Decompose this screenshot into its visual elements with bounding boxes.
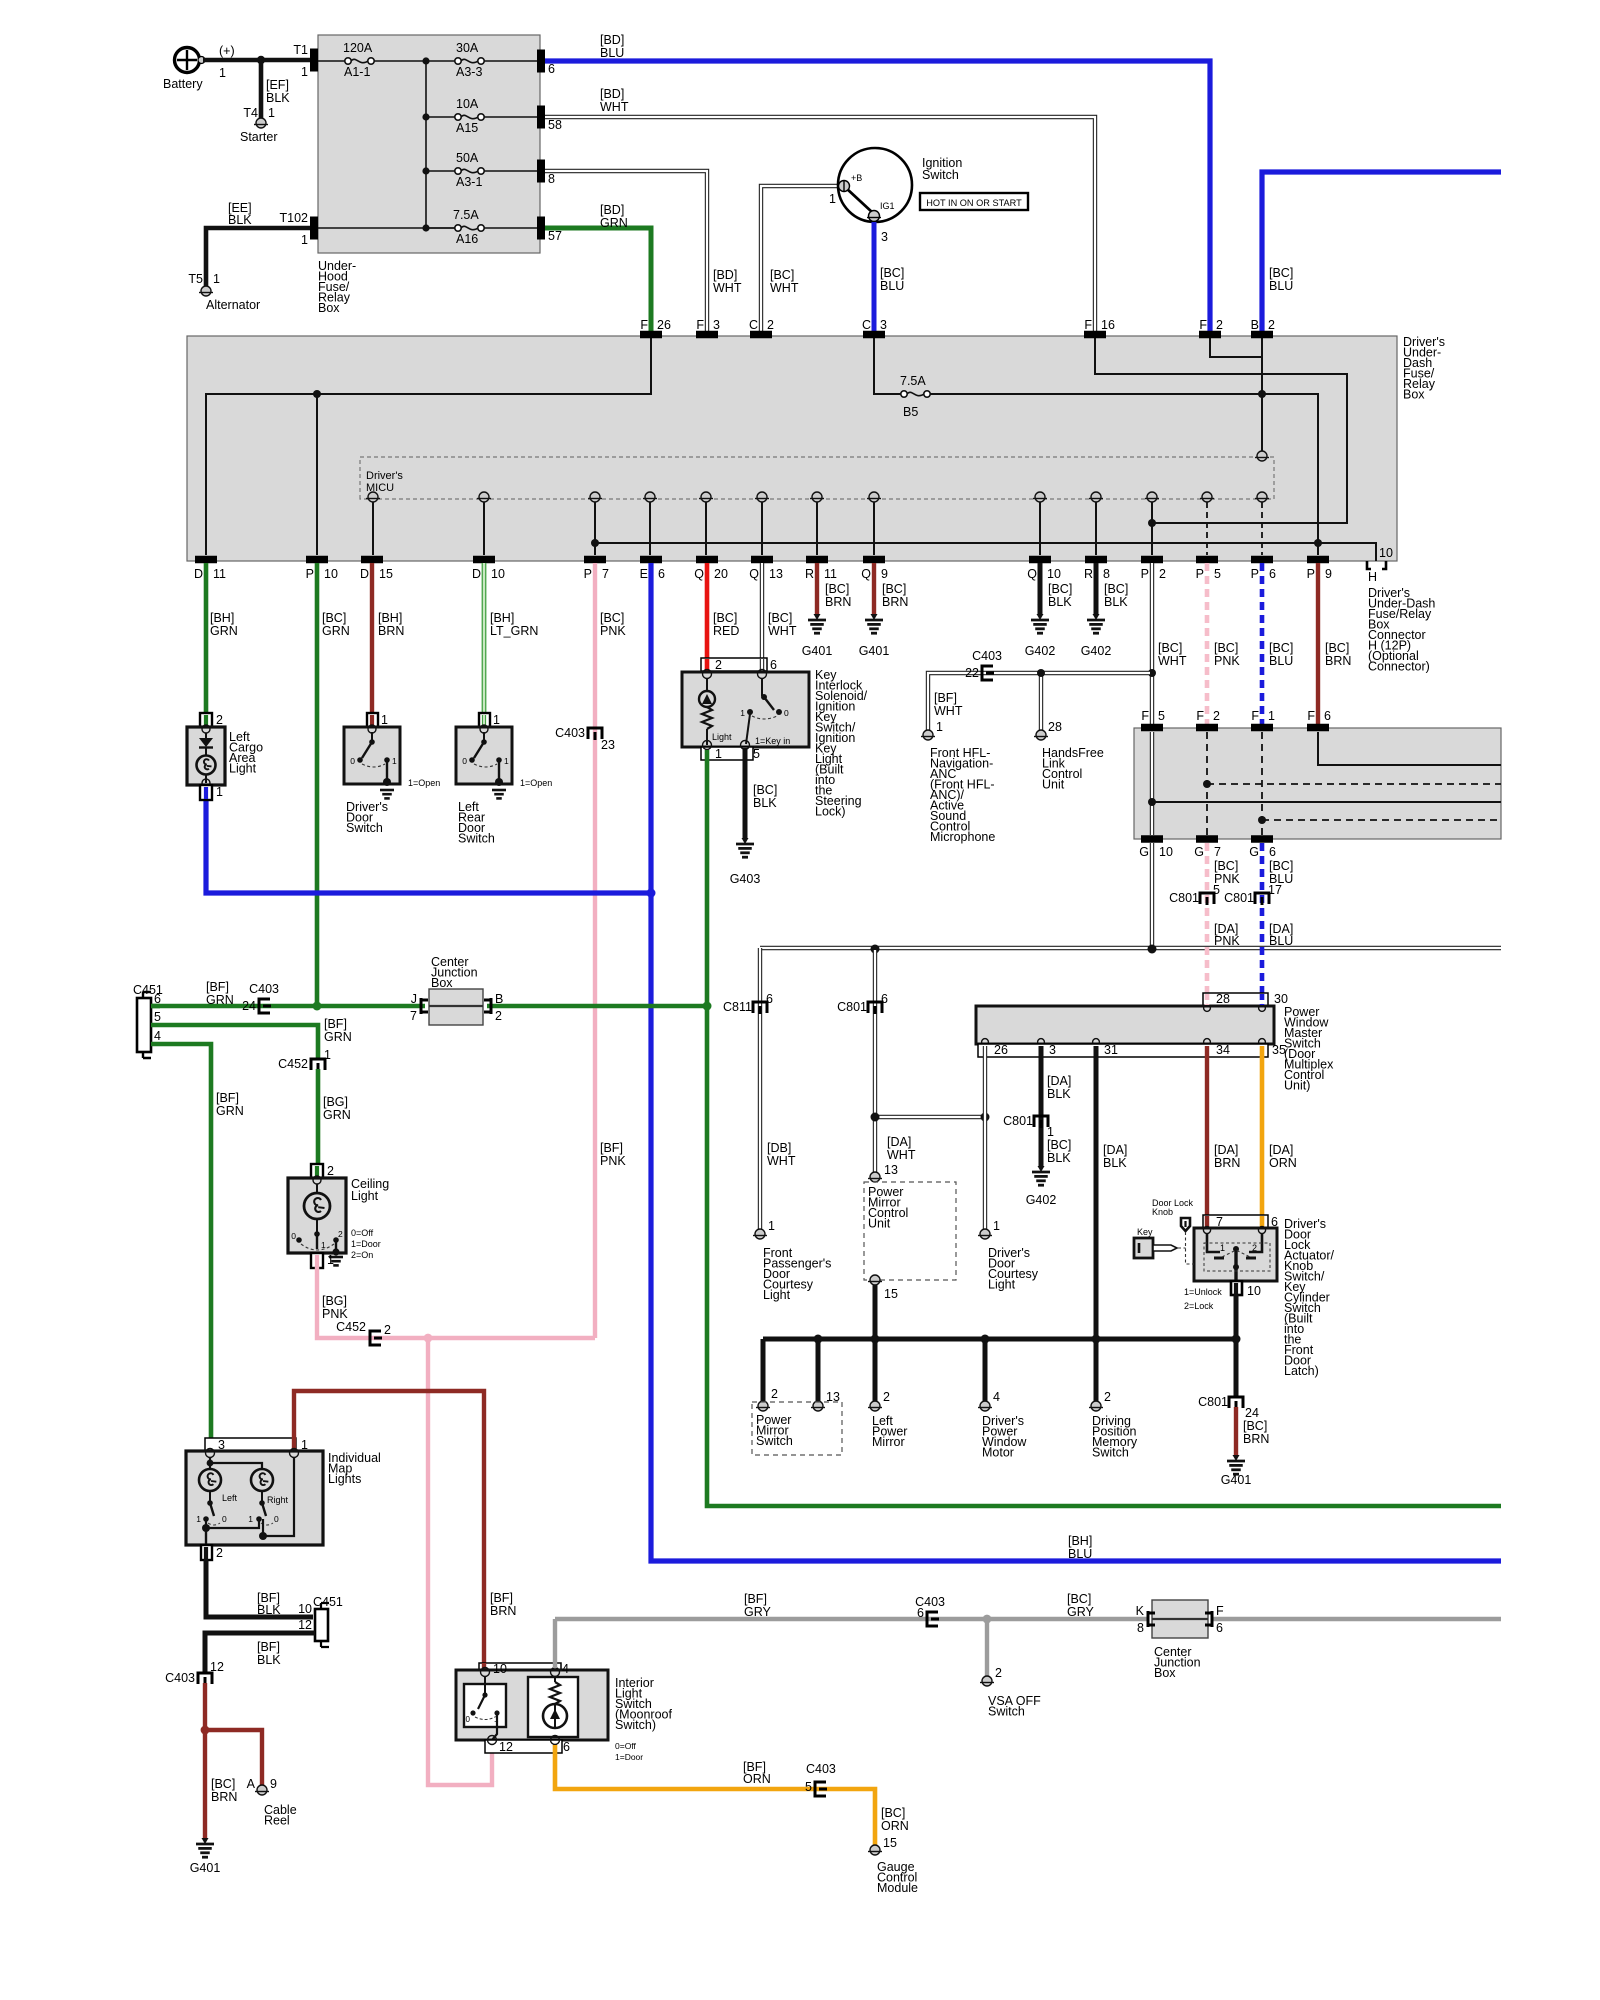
svg-text:0: 0: [784, 708, 789, 718]
svg-text:Latch): Latch): [1284, 1364, 1319, 1378]
svg-text:0: 0: [350, 756, 355, 766]
MICU pin x=484: [479, 492, 489, 502]
key icon: [1134, 1238, 1153, 1258]
svg-text:[BC]: [BC]: [1325, 641, 1349, 655]
svg-text:12: 12: [298, 1618, 312, 1632]
svg-text:D: D: [360, 567, 369, 581]
svg-text:6: 6: [1269, 567, 1276, 581]
internal feed lines under-hood box: [318, 60, 345, 62]
wire [BD] BLU fuse6 to F2: [545, 61, 1210, 333]
wire [BF] BLK C451-12 to C403-12: [205, 1633, 315, 1673]
svg-text:13: 13: [769, 567, 783, 581]
output pin 57: [537, 217, 545, 240]
fuse 7.5A B5: [901, 391, 907, 397]
HFL box internal F1 dashed: [1261, 732, 1263, 835]
svg-text:1: 1: [740, 708, 745, 718]
Power Mirror Switch dashed box: [752, 1402, 842, 1455]
svg-text:LT_GRN: LT_GRN: [490, 624, 538, 638]
svg-text:1: 1: [219, 66, 226, 80]
svg-text:J: J: [411, 992, 417, 1006]
DLA pin 10: [1231, 1281, 1242, 1295]
svg-text:15: 15: [379, 567, 393, 581]
wire PMCU-15 to bus: [873, 1285, 878, 1339]
power mirror switch terminal 13: [813, 1401, 823, 1411]
ceiling light pin 1: [311, 1253, 323, 1268]
svg-text:[BC]: [BC]: [770, 268, 794, 282]
connector R8: [1085, 556, 1107, 564]
connector F5: [1141, 724, 1163, 732]
svg-text:HOT IN ON OR START: HOT IN ON OR START: [926, 198, 1022, 208]
svg-text:[BC]: [BC]: [881, 1806, 905, 1820]
connector C3: [863, 331, 885, 339]
svg-text:6: 6: [881, 992, 888, 1006]
svg-text:B: B: [1251, 318, 1259, 332]
svg-text:P: P: [1196, 567, 1204, 581]
connector C2: [750, 331, 772, 339]
svg-text:G401: G401: [190, 1861, 221, 1875]
wire [BF] GRN C451-4 to map lights: [151, 1044, 211, 1449]
svg-text:0: 0: [291, 1231, 296, 1241]
svg-text:26: 26: [994, 1043, 1008, 1057]
svg-text:2: 2: [767, 318, 774, 332]
wire [BC] PNK P5 to F2 dashed: [1205, 563, 1210, 724]
Interior Light Switch box: [456, 1670, 608, 1740]
svg-text:BLK: BLK: [1047, 1151, 1071, 1165]
connector C811 6: [753, 1002, 767, 1013]
svg-text:F: F: [1141, 709, 1149, 723]
key-in switch: [761, 678, 763, 696]
svg-text:12: 12: [499, 1740, 513, 1754]
svg-text:30: 30: [1274, 992, 1288, 1006]
svg-text:28: 28: [1048, 720, 1062, 734]
svg-text:[BF]: [BF]: [490, 1591, 513, 1605]
svg-text:G403: G403: [730, 872, 761, 886]
svg-text:BLU: BLU: [1269, 654, 1293, 668]
connector C801 5: [1200, 893, 1214, 904]
svg-text:11: 11: [213, 567, 226, 581]
svg-text:Light: Light: [763, 1288, 791, 1302]
svg-text:Light: Light: [712, 732, 732, 742]
svg-text:2: 2: [495, 1009, 502, 1023]
svg-text:[BF]: [BF]: [934, 691, 957, 705]
connector C403 5: [815, 1782, 826, 1796]
HFL box internal F6: [1318, 732, 1501, 765]
svg-text:ORN: ORN: [743, 1772, 771, 1786]
wire [BC] PNK P7 down: [593, 563, 597, 1338]
svg-text:2: 2: [216, 1546, 223, 1560]
wire battery to T1: [203, 58, 311, 63]
DLA connector shell: [1203, 1215, 1268, 1228]
connector F2: [1196, 724, 1218, 732]
wire [DA] BLU G6 to PWMS 30 dashed: [1260, 843, 1265, 1006]
svg-text:WHT: WHT: [600, 100, 629, 114]
alternator terminal T5: [201, 286, 211, 296]
svg-text:7.5A: 7.5A: [900, 374, 926, 388]
svg-text:+B: +B: [851, 173, 862, 183]
IML connector shell: [205, 1438, 296, 1451]
key interlock connector shell bottom: [701, 747, 753, 760]
connector G7: [1196, 835, 1218, 843]
connector C451 pins 6/5/4: [137, 998, 151, 1052]
svg-text:7: 7: [410, 1009, 417, 1023]
connector F6: [1307, 724, 1329, 732]
svg-text:GRN: GRN: [324, 1030, 352, 1044]
svg-text:6: 6: [563, 1740, 570, 1754]
svg-text:[DA]: [DA]: [1047, 1074, 1071, 1088]
connector C452 2: [370, 1331, 381, 1345]
svg-text:24: 24: [1245, 1406, 1259, 1420]
svg-text:GRN: GRN: [210, 624, 238, 638]
switch contact to ground: [386, 760, 388, 782]
Under-Hood Fuse/Relay Box: [318, 35, 540, 253]
wire [BC] BRN P9 to F6: [1316, 563, 1320, 724]
wire [BF] ORN ILS-6 to gauge control module: [555, 1745, 875, 1845]
svg-text:F: F: [1307, 709, 1315, 723]
svg-text:[BG]: [BG]: [323, 1095, 348, 1109]
svg-text:PNK: PNK: [322, 1307, 348, 1321]
MICU pin x=650: [645, 492, 655, 502]
svg-text:R: R: [805, 567, 814, 581]
svg-text:57: 57: [548, 229, 562, 243]
svg-text:10: 10: [1159, 845, 1173, 859]
svg-text:BLK: BLK: [266, 91, 290, 105]
IML internal wiring: [209, 1457, 211, 1462]
svg-text:[BF]: [BF]: [206, 980, 229, 994]
svg-text:23: 23: [601, 738, 615, 752]
svg-text:[BF]: [BF]: [600, 1141, 623, 1155]
wire WHT C801 branch: [873, 950, 877, 1117]
door switch pin 1: [479, 713, 490, 728]
terminal T102: [310, 217, 318, 240]
MICU pin x=706: [701, 492, 711, 502]
svg-text:BLK: BLK: [753, 796, 777, 810]
ground G401: [871, 614, 878, 620]
connector P2: [1141, 556, 1163, 564]
connector C403 23 on pink: [588, 728, 602, 739]
wire [BH] GRN D11 to cargo light: [204, 563, 209, 712]
DLA inner switch: [1207, 1234, 1220, 1252]
svg-text:Switch: Switch: [988, 1705, 1025, 1719]
wire [BC] WHT P2 to F5: [1150, 563, 1154, 724]
cargo light pin 1: [200, 785, 212, 800]
wire [BC] BLK R8 to G402: [1094, 563, 1099, 614]
svg-text:GRN: GRN: [206, 993, 234, 1007]
svg-text:BRN: BRN: [211, 1790, 237, 1804]
svg-text:C451: C451: [313, 1595, 343, 1609]
svg-text:Switch: Switch: [458, 832, 495, 846]
MICU pin x=817: [812, 492, 822, 502]
svg-text:BLK: BLK: [1048, 595, 1072, 609]
driver's power window motor terminal 4: [980, 1401, 990, 1411]
wire F16 internal to P2: [1095, 338, 1347, 523]
svg-text:1: 1: [301, 65, 308, 79]
svg-text:C811: C811: [723, 1000, 752, 1014]
svg-text:2: 2: [1216, 318, 1223, 332]
svg-text:[BF]: [BF]: [216, 1091, 239, 1105]
dashed key linkage: [1178, 1232, 1194, 1264]
handsfree terminal 28: [1036, 730, 1046, 740]
microphone terminal 1: [923, 730, 933, 740]
svg-text:A16: A16: [456, 232, 478, 246]
door switch box: [344, 727, 400, 784]
ceiling light switch: [314, 1231, 320, 1237]
svg-text:5: 5: [1213, 883, 1220, 897]
svg-text:F: F: [1196, 709, 1204, 723]
svg-text:B5: B5: [903, 405, 918, 419]
svg-text:6: 6: [1324, 709, 1331, 723]
svg-text:15: 15: [884, 1287, 898, 1301]
wire [BC] BLU P6 to F1 dashed: [1260, 563, 1265, 724]
Center Junction Box 1 internals: [429, 1005, 483, 1007]
svg-text:IG1: IG1: [880, 201, 895, 211]
svg-text:6: 6: [658, 567, 665, 581]
svg-text:GRN: GRN: [323, 1108, 351, 1122]
Center Junction Box 1: [429, 989, 483, 1025]
HOT IN ON OR START box: [920, 193, 1028, 210]
svg-text:[BC]: [BC]: [753, 783, 777, 797]
connector C452 1: [311, 1059, 325, 1070]
connector P5: [1196, 556, 1218, 564]
power mirror control unit terminal 15: [870, 1275, 880, 1285]
svg-text:1: 1: [768, 1219, 775, 1233]
svg-text:5: 5: [753, 747, 760, 761]
svg-text:BLK: BLK: [1104, 595, 1128, 609]
IML left bulb: [199, 1469, 221, 1491]
svg-text:1: 1: [268, 106, 275, 120]
IML pin 2: [201, 1545, 212, 1560]
svg-text:Box: Box: [1154, 1666, 1176, 1680]
svg-text:F: F: [1216, 1604, 1224, 1618]
connector C403 24: [259, 999, 270, 1013]
ignition switch: [838, 148, 912, 222]
svg-text:F: F: [1251, 709, 1259, 723]
bus drops: [761, 1339, 766, 1401]
svg-text:T4: T4: [243, 106, 258, 120]
svg-text:[BH]: [BH]: [210, 611, 234, 625]
svg-text:5: 5: [805, 1780, 812, 1794]
svg-text:C403: C403: [165, 1671, 195, 1685]
svg-text:5: 5: [154, 1010, 161, 1024]
wire branch P7/P9 to H: [595, 543, 1376, 561]
connector Q13: [751, 556, 773, 564]
door lock knob icon: [1181, 1218, 1190, 1231]
connector F26: [640, 331, 662, 339]
svg-text:K: K: [1136, 1604, 1145, 1618]
svg-text:0=Off: 0=Off: [351, 1228, 374, 1238]
svg-text:1: 1: [936, 720, 943, 734]
svg-text:Unit: Unit: [868, 1217, 891, 1231]
svg-text:[DB]: [DB]: [767, 1141, 791, 1155]
svg-text:Driver's: Driver's: [366, 470, 403, 482]
svg-text:1=Unlock: 1=Unlock: [1184, 1287, 1222, 1297]
ground G401: [814, 614, 821, 620]
svg-text:[BD]: [BD]: [600, 203, 624, 217]
svg-text:2: 2: [883, 1390, 890, 1404]
wire [BD] WHT fuse8 to F3: [545, 171, 707, 333]
svg-text:6: 6: [548, 62, 555, 76]
svg-text:B: B: [495, 992, 503, 1006]
svg-text:Motor: Motor: [982, 1446, 1014, 1460]
connector G10: [1141, 835, 1163, 843]
fuse 10A A15: [455, 114, 461, 120]
MICU top pin: [1257, 451, 1267, 461]
svg-text:0: 0: [462, 756, 467, 766]
svg-text:3: 3: [713, 318, 720, 332]
connector F1: [1251, 724, 1273, 732]
wire WHT net y950: [760, 946, 1501, 950]
svg-text:Switch: Switch: [1092, 1446, 1129, 1460]
svg-text:[BC]: [BC]: [1047, 1138, 1071, 1152]
svg-text:G402: G402: [1081, 644, 1112, 658]
svg-text:G: G: [1249, 845, 1259, 859]
svg-text:[BC]: [BC]: [880, 266, 904, 280]
diode symbol: [205, 733, 207, 738]
svg-text:2: 2: [1252, 1243, 1257, 1253]
key interlock connector shell top: [701, 658, 767, 671]
svg-text:1: 1: [213, 272, 220, 286]
connector C801 6: [868, 1002, 882, 1013]
svg-text:1: 1: [1220, 1243, 1225, 1253]
svg-text:[BD]: [BD]: [713, 268, 737, 282]
svg-text:1: 1: [196, 1514, 201, 1524]
svg-text:C: C: [862, 318, 871, 332]
svg-text:30A: 30A: [456, 41, 479, 55]
svg-text:[BC]: [BC]: [1048, 582, 1072, 596]
svg-text:BRN: BRN: [1325, 654, 1351, 668]
svg-text:[BH]: [BH]: [378, 611, 402, 625]
svg-text:2: 2: [216, 713, 223, 727]
wire [BC] BLK Q10 to G402: [1038, 563, 1043, 614]
svg-text:RED: RED: [713, 624, 739, 638]
MICU pin x=1096: [1091, 492, 1101, 502]
wire [DA]BRN pin34 to door lock actuator 7: [1205, 1057, 1209, 1216]
svg-text:1: 1: [321, 1240, 326, 1250]
wire [BF] GRN main horizontal y=1006: [140, 1004, 425, 1009]
svg-text:1: 1: [392, 756, 397, 766]
svg-text:C452: C452: [336, 1320, 366, 1334]
svg-text:Switch): Switch): [615, 1718, 656, 1732]
svg-text:Knob: Knob: [1152, 1207, 1173, 1217]
MICU pin x=1207 dashed lead: [1202, 492, 1212, 502]
connector F3: [696, 331, 718, 339]
svg-text:2=On: 2=On: [351, 1250, 373, 1260]
svg-text:Starter: Starter: [240, 130, 278, 144]
svg-text:2: 2: [995, 1666, 1002, 1680]
svg-text:PNK: PNK: [1214, 654, 1240, 668]
svg-text:3: 3: [880, 318, 887, 332]
svg-text:ORN: ORN: [1269, 1156, 1297, 1170]
Center Junction Box 2: [1152, 1600, 1208, 1638]
fuse 120A A1-1: [345, 58, 351, 64]
svg-text:Module: Module: [877, 1881, 918, 1895]
svg-text:22: 22: [965, 666, 979, 680]
svg-text:120A: 120A: [343, 41, 373, 55]
wire [BH] BRN D15 to door switch: [370, 563, 374, 714]
ceiling light bulb: [304, 1193, 330, 1219]
wire [BC] BRN to cable reel and G401: [203, 1683, 207, 1838]
svg-text:1: 1: [829, 192, 836, 206]
svg-text:Light: Light: [351, 1189, 379, 1203]
switch lever: [371, 732, 373, 741]
wire WHT C811 branch to front passenger courtesy light: [758, 948, 762, 1229]
svg-text:WHT: WHT: [934, 704, 963, 718]
svg-text:2: 2: [384, 1323, 391, 1337]
svg-text:10: 10: [1379, 546, 1393, 560]
svg-text:WHT: WHT: [768, 624, 797, 638]
connector C451 10/12: [315, 1609, 328, 1641]
connector Q9: [863, 556, 885, 564]
connector C403 12: [198, 1673, 212, 1684]
svg-text:1: 1: [248, 1514, 253, 1524]
svg-text:WHT: WHT: [767, 1154, 796, 1168]
connector Q10: [1029, 556, 1051, 564]
switch lever: [483, 732, 485, 741]
svg-text:26: 26: [657, 318, 671, 332]
svg-text:C: C: [749, 318, 758, 332]
svg-text:F: F: [696, 318, 704, 332]
svg-text:[BC]: [BC]: [768, 611, 792, 625]
svg-text:Unit): Unit): [1284, 1079, 1310, 1093]
wire to starter T4: [259, 60, 264, 118]
wire [BC] BRN to G401: [1234, 1407, 1238, 1456]
svg-text:G: G: [1194, 845, 1204, 859]
connector C801 17: [1255, 893, 1269, 904]
svg-text:BLU: BLU: [1269, 279, 1293, 293]
VSA OFF switch terminal 2: [982, 1676, 992, 1686]
svg-text:[BC]: [BC]: [882, 582, 906, 596]
svg-text:Mirror: Mirror: [872, 1435, 905, 1449]
wire BLK bus y=1339: [763, 1337, 1236, 1342]
svg-text:[BC]: [BC]: [1104, 582, 1128, 596]
svg-text:1: 1: [327, 1253, 334, 1267]
svg-text:58: 58: [548, 118, 562, 132]
wire PNK branch down to interior light switch 12: [428, 1338, 492, 1785]
svg-text:[BF]: [BF]: [324, 1017, 347, 1031]
wire BLU cargo light to E6 blue: [206, 799, 651, 893]
connector E6: [640, 556, 662, 564]
cargo light pin 2: [200, 713, 212, 728]
svg-text:C452: C452: [278, 1057, 308, 1071]
connector D15: [361, 556, 383, 564]
svg-text:8: 8: [1137, 1621, 1144, 1635]
svg-text:C403: C403: [249, 982, 279, 996]
svg-text:10: 10: [298, 1602, 312, 1616]
svg-text:(+): (+): [219, 44, 235, 58]
svg-text:Q: Q: [694, 567, 704, 581]
svg-text:Alternator: Alternator: [206, 298, 260, 312]
wire F2/B2 jumper: [1210, 338, 1262, 357]
svg-text:2: 2: [1104, 1390, 1111, 1404]
ground G402: [1038, 1166, 1045, 1172]
svg-text:ORN: ORN: [881, 1819, 909, 1833]
wire [DA]BLK pin31 to power window motor: [1094, 1057, 1099, 1401]
svg-text:R: R: [1084, 567, 1093, 581]
PWMS bottom connector shell: [978, 1044, 1268, 1057]
connector P10: [306, 556, 328, 564]
svg-text:1: 1: [504, 756, 509, 766]
svg-text:[BG]: [BG]: [322, 1294, 347, 1308]
svg-text:C403: C403: [806, 1762, 836, 1776]
svg-text:[BD]: [BD]: [600, 33, 624, 47]
svg-text:2=Lock: 2=Lock: [1184, 1301, 1214, 1311]
connector D11: [195, 556, 217, 564]
connector P7: [584, 556, 606, 564]
cargo light bulb: [197, 756, 216, 775]
svg-text:Q: Q: [861, 567, 871, 581]
svg-text:6: 6: [917, 1606, 924, 1620]
MICU pin x=595: [590, 492, 600, 502]
svg-text:GRN: GRN: [600, 216, 628, 230]
